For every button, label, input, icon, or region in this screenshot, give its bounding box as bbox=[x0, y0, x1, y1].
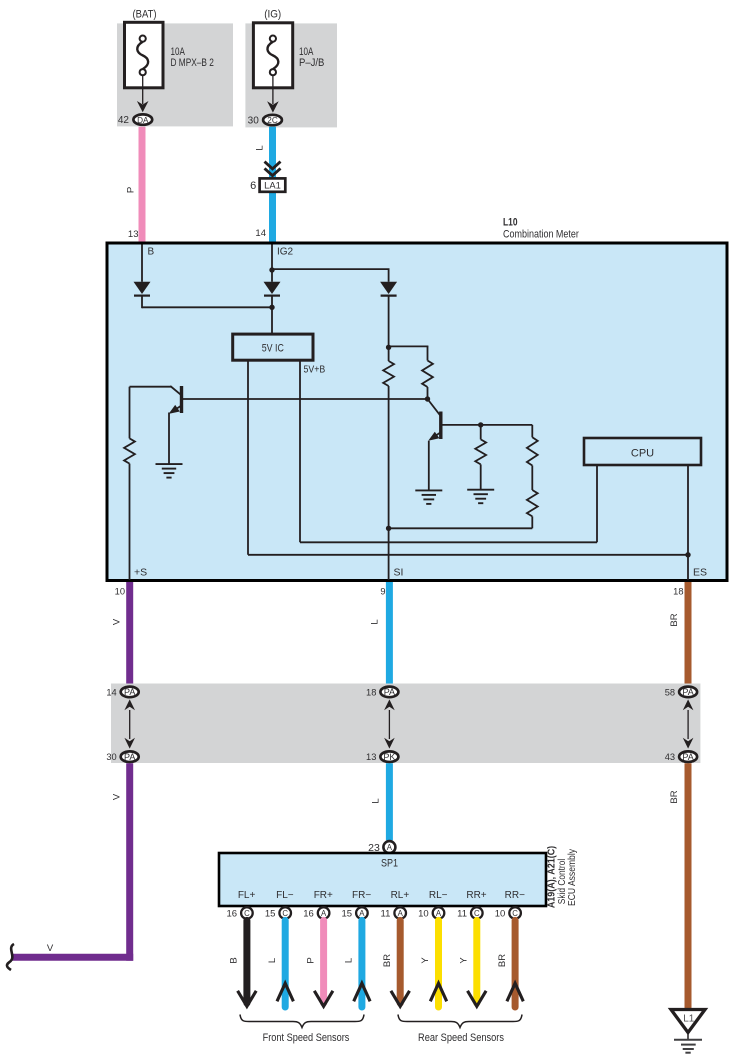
ground L1 triangle bbox=[671, 1010, 705, 1033]
svg-text:BR: BR bbox=[669, 790, 680, 803]
svg-text:PK: PK bbox=[383, 752, 395, 762]
front speed sensors brace bbox=[240, 1015, 364, 1028]
svg-text:L: L bbox=[344, 958, 355, 963]
svg-text:18: 18 bbox=[366, 687, 376, 697]
svg-text:L: L bbox=[370, 619, 381, 624]
diode D1 bbox=[134, 282, 151, 294]
wire Y to speed sensor bbox=[435, 920, 442, 1007]
svg-text:16: 16 bbox=[303, 909, 314, 920]
fuse F1 symbol 10A D MPX-B 2 bbox=[137, 42, 148, 69]
svg-text:PA: PA bbox=[682, 687, 693, 697]
svg-text:L1: L1 bbox=[683, 1014, 695, 1025]
5V IC right leg 5V+B to CPU bbox=[299, 360, 301, 542]
svg-text:PA: PA bbox=[124, 752, 135, 762]
svg-text:Combination Meter: Combination Meter bbox=[503, 228, 579, 240]
svg-text:V: V bbox=[112, 793, 123, 800]
svg-text:PA: PA bbox=[384, 687, 395, 697]
fuse F2 box bbox=[253, 23, 292, 88]
svg-text:FL+: FL+ bbox=[238, 890, 256, 901]
ground L1 earth symbol bbox=[674, 1039, 702, 1041]
wire V purple horizontal run to left edge bbox=[12, 954, 133, 961]
wire BR to speed sensor bbox=[512, 920, 519, 1007]
svg-text:10: 10 bbox=[418, 909, 429, 920]
svg-text:13: 13 bbox=[128, 229, 139, 240]
svg-text:SP1: SP1 bbox=[381, 858, 398, 870]
svg-text:5V IC: 5V IC bbox=[262, 343, 284, 355]
svg-text:9: 9 bbox=[380, 587, 385, 597]
svg-text:BR: BR bbox=[669, 613, 680, 626]
svg-text:2C: 2C bbox=[267, 116, 278, 125]
connector pair 18 PA / 13 PK bbox=[388, 710, 390, 739]
wire V continuation squiggle bbox=[7, 944, 14, 970]
svg-text:ECU Assembly: ECU Assembly bbox=[566, 848, 578, 906]
svg-text:A: A bbox=[321, 909, 327, 918]
connector DA bbox=[133, 114, 152, 124]
svg-text:P–J/B: P–J/B bbox=[299, 57, 324, 69]
connector A pin 23 circle bbox=[383, 841, 395, 853]
svg-text:C: C bbox=[512, 909, 518, 918]
svg-text:C: C bbox=[282, 909, 288, 918]
transistor Q2 bbox=[428, 399, 441, 416]
junction block D (BAT) gray box bbox=[117, 23, 233, 126]
svg-text:30: 30 bbox=[106, 752, 116, 762]
svg-text:BR: BR bbox=[497, 954, 508, 967]
base wire from Q1 to Q2 bbox=[182, 398, 428, 400]
svg-text:11: 11 bbox=[381, 909, 391, 920]
svg-text:A: A bbox=[398, 909, 404, 918]
svg-text:(IG): (IG) bbox=[264, 9, 281, 21]
ground G3 bbox=[467, 489, 494, 491]
svg-text:RL−: RL− bbox=[429, 890, 448, 901]
svg-text:ES: ES bbox=[693, 567, 707, 579]
wire Y to speed sensor bbox=[473, 920, 480, 1003]
fuse F2 symbol 10A P-J/B bbox=[267, 42, 278, 69]
svg-text:PA: PA bbox=[682, 752, 693, 762]
svg-text:14: 14 bbox=[255, 228, 266, 239]
CPU right leg to ES pin bbox=[687, 465, 689, 580]
svg-text:13: 13 bbox=[366, 752, 376, 762]
wire L to speed sensor bbox=[358, 920, 365, 1007]
ground G1 bbox=[156, 463, 183, 465]
svg-text:DA: DA bbox=[137, 116, 149, 125]
fuse F1 box bbox=[125, 22, 164, 88]
resistor R3 to ground bbox=[480, 425, 482, 440]
svg-text:L: L bbox=[371, 798, 382, 803]
svg-text:D MPX–B 2: D MPX–B 2 bbox=[171, 57, 214, 69]
wire V purple below band bbox=[126, 763, 133, 961]
wire BR to speed sensor bbox=[397, 920, 404, 1003]
svg-text:C: C bbox=[244, 909, 250, 918]
wire D2 node to 5V IC bbox=[271, 295, 273, 334]
svg-text:58: 58 bbox=[665, 687, 675, 697]
wire D1 cathode to node under D2 bbox=[141, 295, 143, 308]
svg-text:V: V bbox=[112, 618, 123, 625]
svg-text:Y: Y bbox=[420, 957, 431, 964]
wire R1 to SI pin bbox=[388, 386, 390, 580]
svg-text:30: 30 bbox=[248, 116, 260, 127]
resistor R6 bbox=[124, 438, 135, 463]
wire BR brown from ES to connector PA bbox=[685, 582, 692, 687]
double chevron junction marker on wire L bbox=[265, 162, 281, 169]
wire B to speed sensor bbox=[243, 920, 250, 1003]
wire V purple from +S to connector PA bbox=[126, 582, 133, 687]
svg-text:43: 43 bbox=[665, 752, 675, 762]
ground L1 stem bbox=[687, 1033, 689, 1040]
emitter wire Q2 to ground bbox=[428, 441, 430, 491]
regulator 5V IC box bbox=[233, 334, 313, 360]
svg-text:+S: +S bbox=[134, 567, 147, 579]
svg-text:LA1: LA1 bbox=[264, 180, 281, 191]
svg-text:FL−: FL− bbox=[276, 890, 294, 901]
node at base of Q2 bbox=[425, 396, 430, 401]
wire chain bottom to SI line bbox=[389, 527, 533, 529]
svg-text:A: A bbox=[387, 843, 393, 852]
node on SI line bbox=[386, 526, 391, 531]
rear speed sensors brace bbox=[398, 1015, 522, 1028]
wire L to speed sensor bbox=[282, 920, 289, 1007]
wire L blue below band to skid control ECU bbox=[386, 763, 393, 840]
node on ES line bbox=[685, 552, 690, 557]
svg-text:16: 16 bbox=[227, 909, 238, 920]
wire L blue from LA1 to combination meter pin 14 bbox=[269, 192, 276, 244]
svg-text:10: 10 bbox=[495, 909, 506, 920]
svg-text:PA: PA bbox=[124, 687, 135, 697]
wire fuse F2 to connector 2C bbox=[272, 75, 274, 104]
wire P pink from DA to combination meter pin 13 bbox=[139, 127, 146, 243]
svg-text:15: 15 bbox=[342, 909, 353, 920]
connector pair 14 PA / 30 PA bbox=[129, 710, 131, 739]
transistor Q1 bbox=[130, 386, 172, 388]
wire from IG2 node to diode D3 bbox=[272, 268, 390, 270]
wire node to R2 top bbox=[389, 345, 429, 347]
wire IG2 internal down to diode D2 bbox=[271, 245, 273, 282]
svg-text:14: 14 bbox=[106, 687, 116, 697]
svg-text:P: P bbox=[126, 187, 137, 193]
svg-text:11: 11 bbox=[457, 909, 467, 920]
svg-text:A: A bbox=[436, 909, 442, 918]
connector 2C bbox=[263, 115, 282, 125]
svg-text:B: B bbox=[229, 957, 240, 963]
svg-text:SI: SI bbox=[394, 567, 404, 579]
wire BR brown below band to ground L1 bbox=[685, 763, 692, 1008]
svg-text:FR−: FR− bbox=[352, 890, 371, 901]
CPU box bbox=[584, 438, 701, 465]
arrow into connector DA bbox=[137, 101, 149, 112]
svg-text:42: 42 bbox=[118, 115, 130, 126]
resistor R1 bbox=[383, 361, 394, 386]
wire +S branch with resistor R6 bbox=[129, 387, 131, 439]
svg-text:RR+: RR+ bbox=[466, 890, 486, 901]
junction connector LA1 bbox=[260, 178, 286, 191]
svg-text:B: B bbox=[148, 247, 155, 258]
svg-text:RL+: RL+ bbox=[391, 890, 410, 901]
svg-text:IG2: IG2 bbox=[277, 247, 294, 258]
svg-text:A: A bbox=[359, 909, 365, 918]
svg-text:10: 10 bbox=[115, 587, 125, 597]
node joining D1 and D2 outputs bbox=[269, 305, 274, 310]
resistor chain R4 R5 bbox=[531, 425, 533, 437]
diode D3 bbox=[380, 282, 397, 294]
svg-text:Rear Speed Sensors: Rear Speed Sensors bbox=[418, 1032, 505, 1044]
svg-text:P: P bbox=[305, 957, 316, 963]
wire D3 to resistor R1 bbox=[388, 295, 390, 361]
svg-text:Front Speed Sensors: Front Speed Sensors bbox=[263, 1032, 350, 1044]
ground G2 bbox=[415, 489, 442, 491]
node on Q2 collector line bbox=[478, 422, 483, 427]
node on IG2 line bbox=[269, 267, 274, 272]
connector pair 58 PA / 43 PA bbox=[687, 710, 689, 739]
svg-text:Y: Y bbox=[459, 957, 470, 964]
arrow into connector 2C bbox=[267, 101, 279, 112]
svg-text:RR−: RR− bbox=[505, 890, 525, 901]
svg-text:L10: L10 bbox=[503, 217, 518, 229]
resistor R2 bbox=[422, 361, 433, 388]
wire B internal down to diode D1 bbox=[141, 245, 143, 282]
svg-text:15: 15 bbox=[265, 909, 276, 920]
svg-text:BR: BR bbox=[382, 954, 393, 967]
instrument panel wire harness gray band bbox=[111, 684, 700, 764]
5V IC left leg to ES net bbox=[247, 360, 249, 555]
svg-text:C: C bbox=[474, 909, 480, 918]
skid control ECU box bbox=[219, 853, 546, 906]
svg-text:5V+B: 5V+B bbox=[304, 365, 326, 376]
svg-text:L: L bbox=[254, 145, 265, 150]
svg-text:6: 6 bbox=[250, 180, 256, 192]
svg-text:FR+: FR+ bbox=[314, 890, 333, 901]
svg-text:18: 18 bbox=[673, 587, 683, 597]
wire L blue from SI to connector PA bbox=[386, 582, 393, 687]
diode D2 bbox=[264, 282, 281, 294]
wire R2 to base node bbox=[427, 387, 429, 399]
svg-text:V: V bbox=[47, 943, 54, 954]
junction block P (IG) gray box bbox=[245, 23, 337, 127]
combination meter U-L10 box bbox=[107, 243, 727, 581]
CPU left leg bbox=[596, 465, 598, 542]
emitter wire Q1 to ground bbox=[168, 413, 170, 465]
wire R6 to +S pin bbox=[129, 464, 131, 580]
node above R1/R2 bbox=[386, 345, 391, 350]
wire L blue from 2C to junction LA1 bbox=[269, 127, 276, 178]
svg-text:(BAT): (BAT) bbox=[133, 9, 157, 21]
svg-text:CPU: CPU bbox=[631, 448, 654, 460]
wire fuse F1 to connector DA bbox=[142, 75, 144, 104]
wire P to speed sensor bbox=[320, 920, 327, 1003]
svg-text:L: L bbox=[267, 958, 278, 963]
